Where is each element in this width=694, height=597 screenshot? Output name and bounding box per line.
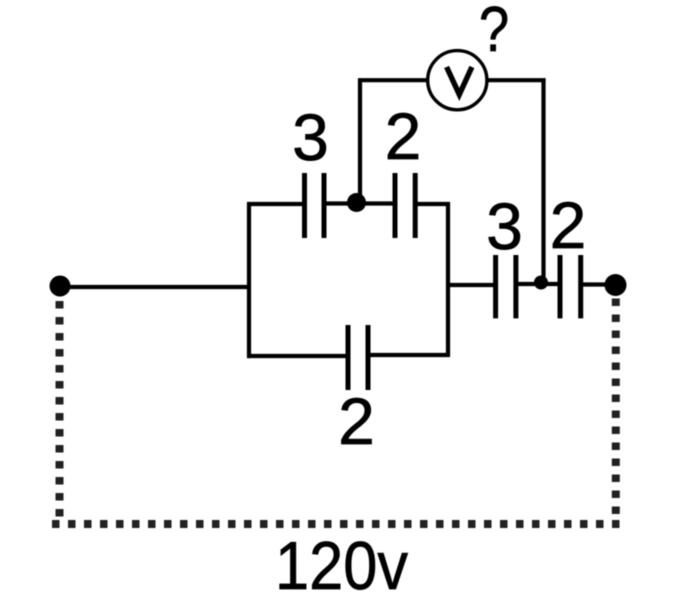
voltmeter V1 letter — [447, 67, 472, 95]
svg-text:2: 2 — [338, 384, 375, 458]
wire: top branch middle segment — [326, 201, 393, 205]
node D: right terminal — [605, 274, 627, 296]
svg-text:?: ? — [479, 0, 509, 65]
battery 120v: right dotted lead — [612, 299, 620, 518]
battery 120v: bottom dotted lead — [52, 520, 622, 528]
node B: junction of top-branch capacitors and voltmeter tap — [347, 193, 366, 212]
capacitor 2 (top branch right) — [395, 173, 415, 238]
battery 120v: left dotted lead — [56, 301, 64, 524]
wire: voltmeter right lead horizontal — [486, 78, 546, 82]
wire: left input from node A to parallel box — [60, 285, 251, 289]
capacitor 2 (bottom branch) — [348, 325, 368, 390]
svg-text:2: 2 — [385, 99, 422, 173]
svg-text:3: 3 — [292, 100, 329, 174]
node A: left terminal — [50, 276, 71, 297]
svg-text:120v: 120v — [275, 528, 408, 597]
wire: top branch right segment — [417, 202, 450, 206]
wire: bottom branch right segment — [370, 353, 450, 357]
wire: voltmeter left lead vertical down to node B — [358, 78, 362, 203]
wire: parallel box left edge — [247, 202, 251, 358]
wire: output segment from box to right series capacitor 3 — [446, 283, 494, 287]
svg-text:2: 2 — [550, 188, 587, 262]
wire: top branch left segment — [247, 202, 303, 206]
capacitor 3 (right series) — [496, 255, 516, 318]
wire: voltmeter left lead horizontal — [358, 78, 429, 82]
wire: bottom branch left segment — [247, 354, 346, 358]
capacitor 2 (right series) — [560, 255, 581, 318]
wire: parallel box right edge — [446, 202, 450, 357]
svg-text:3: 3 — [486, 189, 523, 263]
node C: junction between right series capacitors and voltmeter tap — [534, 276, 548, 290]
wire: output segment to node D — [583, 282, 616, 286]
wire: voltmeter right lead vertical down to node C — [541, 78, 545, 283]
voltmeter V1 circle — [428, 51, 487, 110]
capacitor 3 (top branch left) — [305, 173, 325, 238]
wire: segment between right series capacitors — [518, 282, 558, 286]
